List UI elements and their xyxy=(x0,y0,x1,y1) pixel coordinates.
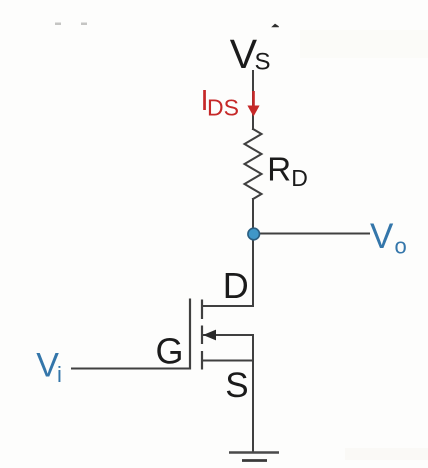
svg-text:D: D xyxy=(223,265,249,306)
svg-text:o: o xyxy=(395,233,407,258)
svg-text:V: V xyxy=(36,347,59,385)
svg-text:R: R xyxy=(267,151,291,188)
svg-text:S: S xyxy=(225,366,248,405)
svg-text:DS: DS xyxy=(207,95,239,121)
svg-text:V: V xyxy=(370,217,394,256)
svg-text:i: i xyxy=(57,362,62,387)
svg-text:D: D xyxy=(291,165,308,191)
svg-text:S: S xyxy=(255,49,271,76)
svg-text:G: G xyxy=(156,331,184,372)
